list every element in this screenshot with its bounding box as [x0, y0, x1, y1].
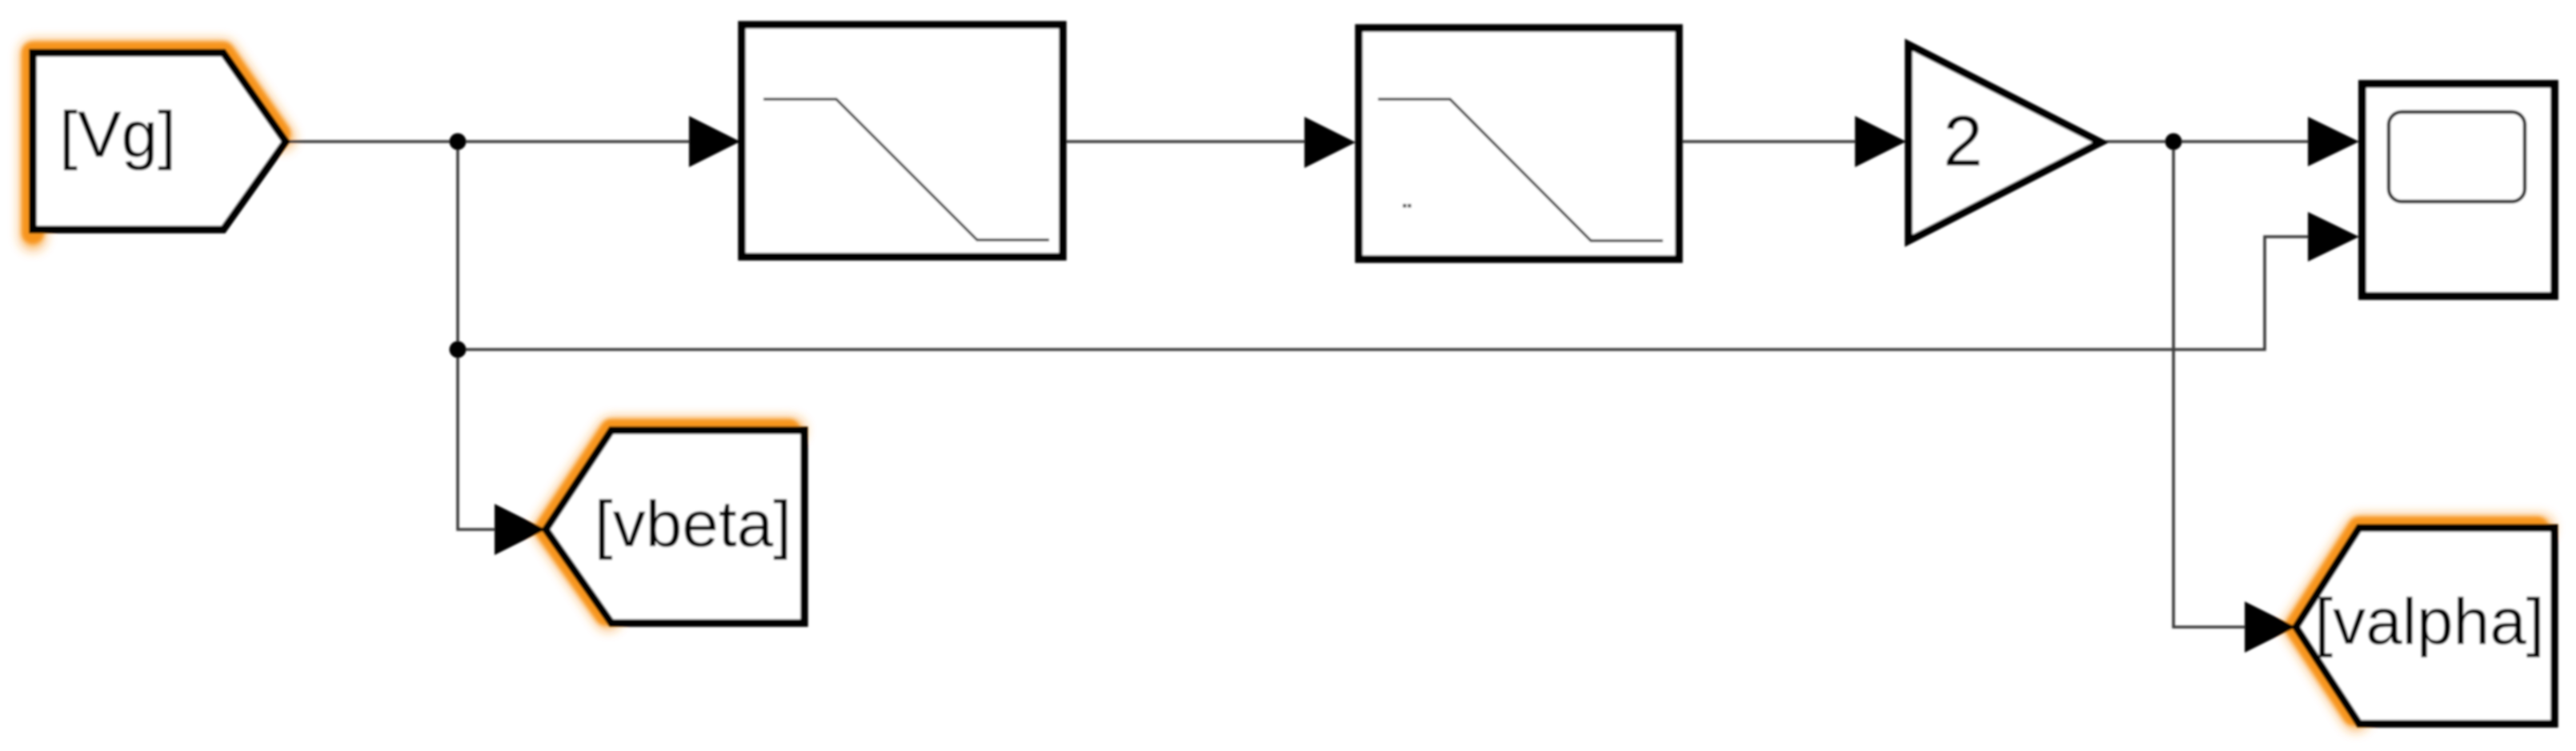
svg-text:[Vg]: [Vg]	[59, 98, 176, 171]
svg-text:[vbeta]: [vbeta]	[595, 488, 791, 561]
svg-text:2: 2	[1943, 101, 1983, 181]
svg-text:[valpha]: [valpha]	[2314, 585, 2544, 658]
